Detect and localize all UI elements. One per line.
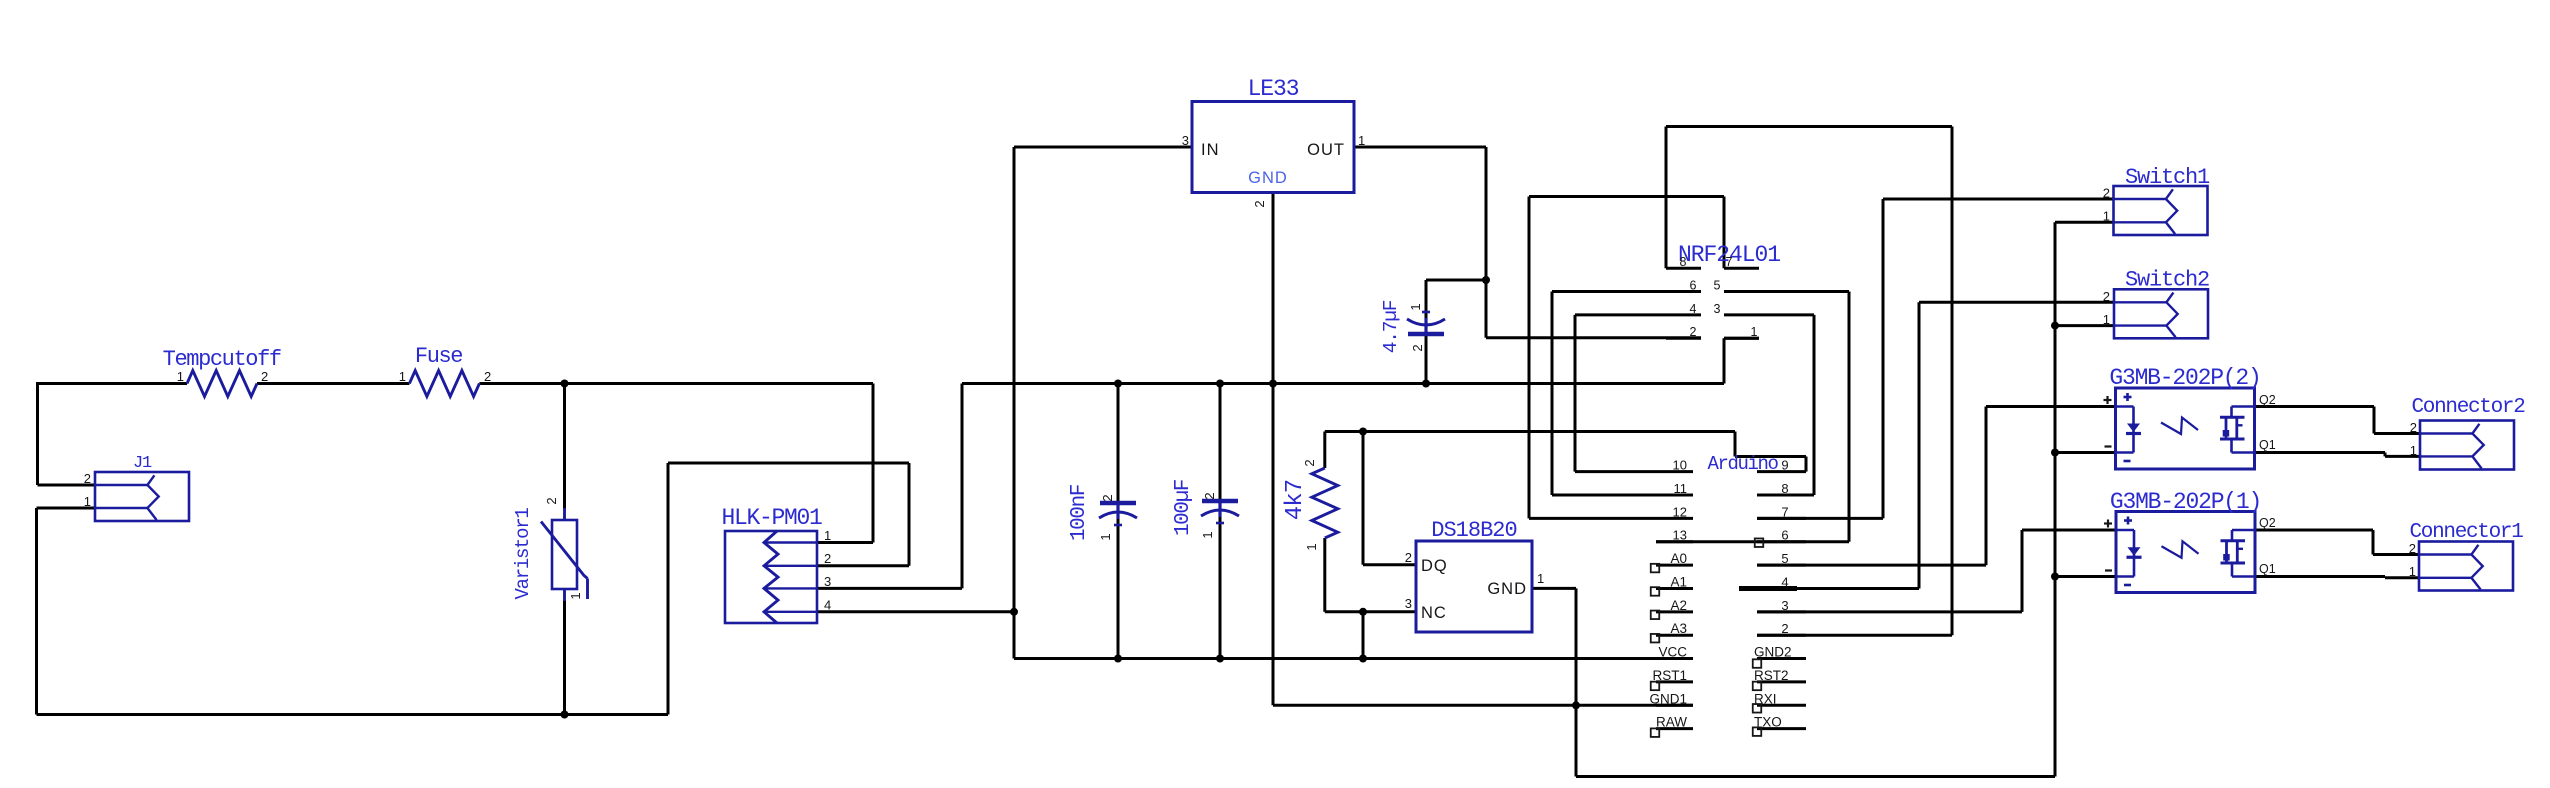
label Q1 of G3MB-202P(1) bbox=[2259, 562, 2276, 576]
label GND of LE33 bbox=[1248, 169, 1288, 187]
svg-text:1: 1 bbox=[177, 369, 184, 384]
svg-text:2: 2 bbox=[2409, 541, 2416, 556]
svg-text:GND2: GND2 bbox=[1754, 645, 1792, 660]
wire Tempcutoff pin2 to Fuse pin1 bbox=[257, 382, 409, 385]
pin 2 of NRF24L01 bbox=[1690, 325, 1697, 339]
junction +5V HLK pin4 / LE33 IN bbox=[1010, 608, 1018, 616]
pin 2 of Connector2 bbox=[2410, 420, 2417, 435]
wire DQ net to Arduino pin9 bbox=[1363, 432, 1806, 472]
svg-text:2: 2 bbox=[1405, 550, 1412, 565]
junction 3V3 / 4.7uF bbox=[1482, 276, 1490, 284]
svg-text:GND: GND bbox=[1248, 169, 1288, 187]
label Q1 of G3MB-202P(2) bbox=[2259, 438, 2276, 452]
wire NRF24L01 pin4 to Arduino pin10 bbox=[1575, 315, 1666, 472]
pin 12 of Arduino bbox=[1673, 504, 1687, 519]
pin 3 of HLK-PM01 bbox=[824, 574, 831, 589]
svg-text:2: 2 bbox=[1690, 325, 1697, 339]
pin 11 of Arduino bbox=[1674, 481, 1688, 496]
pin 1 of 100uF bbox=[1200, 529, 1215, 538]
svg-text:4: 4 bbox=[824, 598, 831, 613]
svg-text:12: 12 bbox=[1673, 504, 1687, 519]
svg-text:1: 1 bbox=[1304, 541, 1319, 550]
wire AC-L: J1 pin2 up-left to top rail bbox=[38, 384, 96, 486]
wire Switch2 pin1 bbox=[2055, 324, 2114, 327]
pin 1 of Switch1 bbox=[2103, 209, 2110, 224]
pin 1 of LE33 bbox=[1358, 133, 1365, 148]
pin RST1 of Arduino bbox=[1652, 668, 1687, 683]
pin A3 of Arduino bbox=[1670, 621, 1687, 636]
pin 6 of Arduino right column bbox=[1781, 528, 1788, 543]
svg-text:2: 2 bbox=[544, 495, 559, 504]
wire +5V: HLK-PM01 pin4 to junction bbox=[817, 610, 1014, 613]
svg-text:5: 5 bbox=[1781, 551, 1788, 566]
pin A1 of Arduino bbox=[1670, 574, 1687, 589]
wire HLK-PM01 pin2 loop bbox=[668, 463, 909, 715]
junction 100nF top bbox=[1114, 380, 1122, 388]
wire GND rail to NRF24L01 pin1 bbox=[962, 338, 1759, 383]
junction GND bus / G3MB-202P(1) minus bbox=[2051, 573, 2059, 581]
pin TXO of Arduino right column bbox=[1754, 715, 1782, 730]
junction varistor bottom bbox=[561, 711, 569, 719]
wire NC row down to +5V rail bbox=[1362, 612, 1365, 659]
wire AC-L top rail left segment to Tempcutoff pin1 bbox=[36, 382, 187, 385]
wire 4k7 top to DQ junction bbox=[1325, 432, 1363, 469]
pin 1 of 4.7uF bbox=[1408, 301, 1423, 310]
pin 1 of 100nF bbox=[1098, 531, 1113, 540]
svg-text:Switch1: Switch1 bbox=[2125, 165, 2210, 190]
pin 2 of Connector1 bbox=[2409, 541, 2416, 556]
wire NRF24L01 pin8 loop to Arduino pin2 bbox=[1666, 127, 1952, 636]
svg-text:3: 3 bbox=[1405, 596, 1412, 611]
svg-text:1: 1 bbox=[2409, 564, 2416, 579]
svg-text:1: 1 bbox=[568, 590, 583, 599]
pin 2 of 4.7uF bbox=[1410, 342, 1425, 351]
switch Switch1 bbox=[2114, 165, 2211, 235]
regulator LE33 bbox=[1192, 76, 1354, 193]
wire G3MB-202P(1) minus pin bbox=[2055, 575, 2116, 578]
svg-text:1: 1 bbox=[824, 528, 831, 543]
svg-text:3: 3 bbox=[824, 574, 831, 589]
pin 4 of Arduino right column bbox=[1781, 574, 1788, 589]
pin 4 of NRF24L01 bbox=[1690, 302, 1697, 316]
svg-text:1: 1 bbox=[1358, 133, 1365, 148]
svg-text:2: 2 bbox=[1302, 457, 1317, 466]
pin VCC of Arduino bbox=[1658, 645, 1687, 660]
svg-text:2: 2 bbox=[2103, 289, 2110, 304]
svg-text:OUT: OUT bbox=[1307, 141, 1345, 159]
pin 1 of Switch2 bbox=[2103, 312, 2110, 327]
svg-text:100µF: 100µF bbox=[1172, 479, 1195, 536]
svg-text:5: 5 bbox=[1714, 279, 1721, 293]
wire G3MB-202P(1) Q1 to Connector1 pin1 bbox=[2255, 577, 2419, 578]
svg-text:Q1: Q1 bbox=[2259, 562, 2276, 576]
pin 2 of 4k7 bbox=[1302, 457, 1317, 466]
junction 4.7uF at GND rail bbox=[1422, 380, 1430, 388]
svg-text:4.7µF: 4.7µF bbox=[1380, 300, 1402, 353]
svg-text:NC: NC bbox=[1421, 604, 1447, 622]
svg-text:GND1: GND1 bbox=[1649, 691, 1687, 706]
svg-text:A1: A1 bbox=[1670, 574, 1687, 589]
svg-text:G3MB-202P(1): G3MB-202P(1) bbox=[2110, 489, 2261, 515]
junction varistor top bbox=[561, 380, 569, 388]
label GND of DS18B20 bbox=[1487, 580, 1527, 598]
svg-text:2: 2 bbox=[1252, 198, 1267, 207]
wire +5V VCC rail to Arduino VCC bbox=[1014, 657, 1693, 660]
svg-text:A0: A0 bbox=[1670, 551, 1687, 566]
pin 2 of Switch2 bbox=[2103, 289, 2110, 304]
junction DQ net bbox=[1359, 428, 1367, 436]
wire GND to relays: down and right to common GND bus bbox=[1576, 705, 2055, 776]
pin 2 of HLK-PM01 bbox=[824, 551, 831, 566]
wire Arduino pin3 to G3MB-202P(1) plus bbox=[1757, 530, 2116, 612]
wire 100nF top bbox=[1117, 384, 1120, 504]
unconnected pin marker 6 bbox=[1755, 538, 1764, 547]
wire LE33 GND pin2 down to GND1 row bbox=[1272, 193, 1275, 705]
svg-text:HLK-PM01: HLK-PM01 bbox=[721, 505, 822, 531]
pin 8 of NRF24L01 bbox=[1680, 255, 1687, 269]
pin 4 of HLK-PM01 bbox=[824, 598, 831, 613]
svg-text:GND: GND bbox=[1487, 580, 1527, 598]
junction GND1 / DS18B20 GND riser bbox=[1572, 701, 1580, 709]
pin 5 of Arduino right column bbox=[1781, 551, 1788, 566]
wire Arduino pin7 to Switch1 pin2 bbox=[1757, 199, 2114, 518]
pin 1 of Connector1 bbox=[2409, 564, 2416, 579]
svg-text:1: 1 bbox=[2103, 312, 2110, 327]
pin 2 of J1 bbox=[84, 471, 91, 486]
pin 3 of Arduino right column bbox=[1781, 598, 1788, 613]
pin 2 of Arduino right column bbox=[1781, 621, 1788, 636]
junction GND bus / G3MB-202P(2) minus bbox=[2051, 449, 2059, 457]
wire NRF24L01 pin6 to Arduino pin11 bbox=[1552, 292, 1666, 495]
junction 100uF top bbox=[1216, 380, 1224, 388]
pin 10 of Arduino bbox=[1673, 458, 1687, 473]
wire G3MB-202P(2) Q1 to Connector2 pin1 bbox=[2254, 453, 2420, 457]
svg-text:11: 11 bbox=[1674, 481, 1688, 496]
wire NRF24L01 pin3 to Arduino pin8 bbox=[1757, 315, 1814, 495]
pin 3 of DS18B20 bbox=[1405, 596, 1412, 611]
svg-text:2: 2 bbox=[84, 471, 91, 486]
unconnected pin marker A3 bbox=[1651, 634, 1660, 643]
unconnected pin marker GND2 bbox=[1753, 659, 1762, 668]
svg-text:2: 2 bbox=[1781, 621, 1788, 636]
svg-text:J1: J1 bbox=[133, 454, 152, 473]
pin 2 of 100nF bbox=[1100, 492, 1115, 501]
svg-text:3: 3 bbox=[1182, 133, 1189, 148]
varistor Varistor1 bbox=[512, 508, 588, 601]
unconnected pin marker TXO bbox=[1753, 727, 1762, 736]
svg-text:Varistor1: Varistor1 bbox=[512, 508, 534, 600]
switch Switch2 bbox=[2114, 268, 2209, 339]
resistor 4k7 bbox=[1282, 468, 1338, 538]
svg-text:2: 2 bbox=[824, 551, 831, 566]
capacitor 4.7uF bbox=[1380, 300, 1445, 353]
capacitor 100nF bbox=[1068, 484, 1137, 541]
connector Connector1 bbox=[2409, 521, 2523, 591]
svg-text:9: 9 bbox=[1781, 458, 1788, 473]
svg-text:Q2: Q2 bbox=[2259, 393, 2276, 407]
unconnected pin marker A1 bbox=[1651, 587, 1660, 596]
svg-text:Arduino: Arduino bbox=[1707, 453, 1778, 475]
wire LE33 OUT (3V3) to NRF24L01 pin2 bbox=[1354, 147, 1701, 338]
pin 9 of Arduino right column bbox=[1781, 458, 1788, 473]
svg-text:2: 2 bbox=[1202, 490, 1217, 499]
svg-text:DS18B20: DS18B20 bbox=[1431, 518, 1516, 543]
wire Arduino pin4 to Switch2 pin2 (bold stub overlap) bbox=[1739, 302, 2114, 588]
svg-text:1: 1 bbox=[399, 369, 406, 384]
pin 2 of DS18B20 bbox=[1405, 550, 1412, 565]
resistor Tempcutoff bbox=[163, 347, 281, 397]
label DQ of DS18B20 bbox=[1421, 557, 1448, 575]
svg-text:A3: A3 bbox=[1670, 621, 1687, 636]
svg-text:2: 2 bbox=[261, 369, 268, 384]
pin A2 of Arduino bbox=[1670, 598, 1687, 613]
svg-text:RST2: RST2 bbox=[1754, 668, 1789, 683]
pin 1 of Tempcutoff bbox=[177, 369, 184, 384]
junction at +5V rail below NC bbox=[1359, 655, 1367, 663]
pin 6 of NRF24L01 bbox=[1690, 279, 1697, 293]
wire G3MB-202P(1) Q2 to Connector1 pin2 bbox=[2255, 530, 2419, 555]
wire 100uF top bbox=[1219, 384, 1222, 502]
unconnected pin marker A2 bbox=[1651, 611, 1660, 620]
sensor DS18B20 bbox=[1416, 518, 1532, 632]
wire AC-N: J1 pin1 down to bottom loop bbox=[37, 508, 96, 715]
svg-text:2: 2 bbox=[1100, 492, 1115, 501]
svg-text:13: 13 bbox=[1673, 528, 1687, 543]
svg-text:Q1: Q1 bbox=[2259, 438, 2276, 452]
pin 2 of LE33 bbox=[1252, 198, 1267, 207]
svg-text:1: 1 bbox=[1751, 325, 1758, 339]
pin RAW of Arduino bbox=[1656, 715, 1687, 730]
svg-text:IN: IN bbox=[1201, 141, 1220, 159]
svg-text:10: 10 bbox=[1673, 458, 1687, 473]
svg-text:4k7: 4k7 bbox=[1282, 480, 1309, 521]
wire G3MB-202P(2) Q2 to Connector2 pin2 bbox=[2254, 407, 2420, 434]
pin 2 of Fuse bbox=[484, 369, 491, 384]
wire GND1 row to Arduino GND1 bbox=[1273, 704, 1693, 707]
capacitor 100uF bbox=[1172, 479, 1239, 536]
wire Fuse pin2 to HLK-PM01 pin1, via varistor junction bbox=[479, 384, 873, 543]
wire LE33 IN from +5V junction bbox=[1014, 147, 1192, 612]
pin 7 of NRF24L01 bbox=[1726, 255, 1733, 269]
pin RXI of Arduino right column bbox=[1754, 691, 1777, 706]
pin 2 of Switch1 bbox=[2103, 186, 2110, 201]
wire Arduino pin5 to G3MB-202P(2) plus bbox=[1757, 407, 2116, 566]
pin 3 of NRF24L01 bbox=[1714, 302, 1721, 316]
svg-text:Switch2: Switch2 bbox=[2125, 268, 2209, 293]
wire 4k7 bottom to DS18B20 NC pin3 bbox=[1325, 538, 1416, 612]
unconnected pin marker RAW bbox=[1651, 728, 1660, 737]
wire 100nF bottom bbox=[1117, 512, 1120, 659]
wire DS18B20 GND pin1 riser bbox=[1532, 588, 1576, 705]
svg-text:100nF: 100nF bbox=[1068, 484, 1091, 541]
resistor Fuse bbox=[409, 344, 479, 397]
pin 1 of Connector2 bbox=[2410, 443, 2417, 458]
svg-text:RAW: RAW bbox=[1656, 715, 1687, 730]
svg-text:VCC: VCC bbox=[1658, 645, 1687, 660]
pin 2 of Varistor1 bbox=[544, 495, 559, 504]
wire +5V down to VCC rail bbox=[1013, 612, 1016, 659]
wire varistor pin1 to bottom loop bbox=[563, 600, 566, 715]
junction GND bus / Switch2 pin1 bbox=[2051, 322, 2059, 330]
wire 100uF bottom bbox=[1219, 510, 1222, 659]
pin 1 of 4k7 bbox=[1304, 541, 1319, 550]
unconnected pin marker RXI bbox=[1753, 704, 1762, 713]
label Q2 of G3MB-202P(2) bbox=[2259, 393, 2276, 407]
svg-text:2: 2 bbox=[2103, 186, 2110, 201]
svg-text:DQ: DQ bbox=[1421, 557, 1448, 575]
wire 4.7uF pin1 to 3V3 bbox=[1426, 280, 1486, 320]
pin 3 of LE33 bbox=[1182, 133, 1189, 148]
power module HLK-PM01 bbox=[721, 505, 822, 623]
svg-text:8: 8 bbox=[1781, 481, 1788, 496]
svg-text:1: 1 bbox=[1200, 529, 1215, 538]
svg-text:Fuse: Fuse bbox=[415, 344, 462, 369]
pin 1 of J1 bbox=[84, 494, 91, 509]
svg-text:1: 1 bbox=[2103, 209, 2110, 224]
junction 100uF bottom bbox=[1216, 655, 1224, 663]
pin 1 of Varistor1 bbox=[568, 590, 583, 599]
svg-text:Connector2: Connector2 bbox=[2411, 396, 2525, 419]
svg-text:2: 2 bbox=[2410, 420, 2417, 435]
wire GND bus riser to Switch1 pin1 bbox=[2055, 222, 2114, 776]
svg-text:2: 2 bbox=[1410, 342, 1425, 351]
svg-text:6: 6 bbox=[1781, 528, 1788, 543]
svg-text:3: 3 bbox=[1781, 598, 1788, 613]
svg-text:LE33: LE33 bbox=[1248, 76, 1299, 102]
microcontroller Arduino pin header bbox=[1656, 453, 1806, 729]
label NC of DS18B20 bbox=[1421, 604, 1447, 622]
svg-text:2: 2 bbox=[484, 369, 491, 384]
label Q2 of G3MB-202P(1) bbox=[2259, 516, 2276, 530]
svg-text:1: 1 bbox=[1537, 571, 1544, 586]
svg-text:1: 1 bbox=[1098, 531, 1113, 540]
svg-text:8: 8 bbox=[1680, 255, 1687, 269]
svg-text:7: 7 bbox=[1726, 255, 1733, 269]
svg-text:Q2: Q2 bbox=[2259, 516, 2276, 530]
pin GND2 of Arduino right column bbox=[1754, 645, 1792, 660]
pin 1 of Fuse bbox=[399, 369, 406, 384]
wire NRF24L01 pin5 to Arduino pin13 bbox=[1656, 292, 1849, 542]
pin 7 of Arduino right column bbox=[1781, 504, 1788, 519]
relay G3MB-202P(2) bbox=[2104, 365, 2261, 469]
pin 1 of HLK-PM01 bbox=[824, 528, 831, 543]
pin 2 of Tempcutoff bbox=[261, 369, 268, 384]
relay G3MB-202P(1) bbox=[2104, 489, 2261, 593]
wire DQ junction down to DS18B20 DQ pin2 bbox=[1363, 432, 1416, 565]
radio module NRF24L01 pin header bbox=[1666, 242, 1780, 338]
junction NC row to +5V rail bbox=[1359, 608, 1367, 616]
wire 4.7uF pin2 to GND rail bbox=[1425, 334, 1428, 384]
svg-text:1: 1 bbox=[1408, 301, 1423, 310]
pin A0 of Arduino bbox=[1670, 551, 1687, 566]
svg-text:RST1: RST1 bbox=[1652, 668, 1687, 683]
svg-text:G3MB-202P(2): G3MB-202P(2) bbox=[2109, 365, 2260, 391]
unconnected pin marker A0 bbox=[1651, 564, 1660, 573]
svg-text:1: 1 bbox=[2410, 443, 2417, 458]
svg-text:1: 1 bbox=[84, 494, 91, 509]
wire varistor pin2 from top rail bbox=[563, 384, 566, 510]
pin 1 of NRF24L01 bbox=[1751, 325, 1758, 339]
pin 2 of 100uF bbox=[1202, 490, 1217, 499]
wire AC-N bottom loop to HLK-PM01 pin2 riser bbox=[37, 713, 669, 716]
wire GND: HLK-PM01 pin3 up to GND rail bbox=[817, 384, 962, 589]
pin RST2 of Arduino right column bbox=[1754, 668, 1789, 683]
svg-text:3: 3 bbox=[1714, 302, 1721, 316]
svg-text:A2: A2 bbox=[1670, 598, 1687, 613]
pin GND1 of Arduino bbox=[1649, 691, 1687, 706]
svg-text:4: 4 bbox=[1690, 302, 1697, 316]
wire NRF24L01 pin7 to Arduino pin12 bbox=[1529, 197, 1724, 519]
junction 100nF bottom bbox=[1114, 655, 1122, 663]
pin 1 of DS18B20 bbox=[1537, 571, 1544, 586]
pin 8 of Arduino right column bbox=[1781, 481, 1788, 496]
connector J1 bbox=[95, 454, 189, 521]
svg-text:Connector1: Connector1 bbox=[2409, 521, 2523, 544]
svg-text:6: 6 bbox=[1690, 279, 1697, 293]
label IN of LE33 bbox=[1201, 141, 1220, 159]
unconnected pin marker RST2 bbox=[1753, 682, 1762, 691]
unconnected pin marker RST1 bbox=[1651, 682, 1660, 691]
pin 5 of NRF24L01 bbox=[1714, 279, 1721, 293]
svg-text:7: 7 bbox=[1781, 504, 1788, 519]
connector Connector2 bbox=[2411, 396, 2525, 470]
svg-text:4: 4 bbox=[1781, 574, 1788, 589]
label OUT of LE33 bbox=[1307, 141, 1345, 159]
junction LE33 GND at GND rail bbox=[1269, 380, 1277, 388]
wire G3MB-202P(2) minus pin bbox=[2055, 451, 2116, 454]
pin 13 of Arduino bbox=[1673, 528, 1687, 543]
